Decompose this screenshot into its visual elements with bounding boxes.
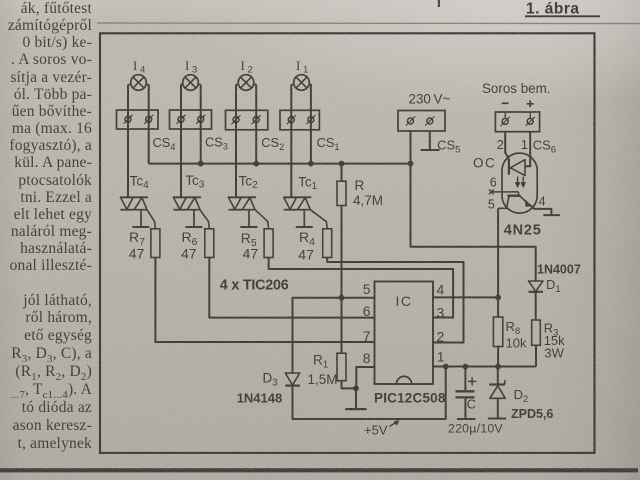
label R7	[129, 229, 145, 248]
wire lamp I2 right lead to 230V bus	[255, 85, 257, 164]
ground symbol	[345, 388, 366, 409]
lamp I4	[128, 75, 148, 91]
wire IC pin 4 to opto collector node	[433, 296, 498, 298]
resistor R8 body	[493, 317, 502, 347]
resistor R3 body	[532, 320, 541, 345]
wire pin4 node to R8	[497, 297, 499, 317]
wire opto collector to pin4 node	[497, 208, 499, 297]
label R3	[544, 321, 559, 339]
wire 230V common bus	[149, 163, 411, 165]
label D2	[514, 387, 529, 405]
pin number 4	[437, 282, 445, 298]
junction +5V line riser	[443, 364, 449, 370]
opto LED cathode wire from CS6 pin 2	[505, 132, 509, 159]
label 6 opto base pin	[490, 176, 497, 190]
label OC	[473, 156, 496, 171]
opto phototransistor	[498, 196, 531, 209]
resistor R5 47 ohm body	[264, 229, 273, 258]
wire R 4,7M to pin5 node	[341, 206, 343, 298]
label 1N4148	[237, 391, 283, 406]
junction pin4/opto/R8	[495, 295, 501, 301]
label 1N4007	[537, 263, 581, 277]
label CS6	[533, 138, 556, 156]
label 4,7M	[353, 193, 383, 208]
label CS1	[317, 135, 340, 152]
resistor R7 47 ohm body	[151, 229, 160, 258]
label 4 opto emitter pin	[539, 195, 546, 209]
junction on bus at I3 lead	[198, 161, 204, 167]
label 2 CS6 pin	[497, 137, 504, 152]
label Tc4	[130, 174, 150, 192]
wire lamp I3 right lead to 230V bus	[200, 85, 202, 164]
label D1	[546, 277, 561, 295]
capacitor C body	[456, 367, 476, 420]
junction on bus at I1 lead	[308, 161, 314, 167]
junction R1/pin8/ground	[353, 386, 359, 392]
resistor R4 47 ohm body	[323, 229, 332, 258]
label R4	[299, 229, 315, 248]
opto LED	[509, 159, 525, 176]
label 15k	[544, 333, 565, 348]
label R6	[182, 229, 198, 248]
label minus	[502, 102, 509, 104]
label R8	[506, 319, 521, 337]
label R1	[313, 353, 329, 371]
wire lamp I4 right lead to 230V bus	[148, 85, 150, 164]
bottom page rule	[0, 468, 638, 472]
pin number 7	[363, 328, 371, 344]
label 47 of R6	[181, 246, 197, 262]
zener diode D2 ZPD5,6	[488, 367, 507, 419]
label 47 of R4	[298, 247, 314, 263]
label I1	[296, 58, 308, 76]
optocoupler 4N25 body outline	[502, 153, 537, 213]
label I4	[133, 58, 145, 76]
opto base lead with x mark	[489, 190, 519, 196]
triac Tc2	[228, 197, 269, 229]
label 5 opto collector pin	[488, 197, 495, 211]
wire bus to R 4,7M	[341, 164, 343, 182]
wire R1 bottom to ground node	[342, 381, 357, 389]
label CS2	[261, 135, 284, 152]
label 47 of R5	[243, 246, 259, 262]
pin number 5	[363, 281, 371, 297]
label Tc3	[185, 173, 205, 191]
label 4N25	[504, 223, 542, 239]
IC PIC12C508 body	[375, 282, 434, 385]
label 4 x TIC206	[220, 277, 289, 293]
terminal block CS4	[117, 110, 159, 129]
wire R8 to +5V rail	[497, 347, 499, 367]
label +5V with arrow	[364, 421, 399, 438]
wire lamp I3 left lead to triac Tc3	[180, 85, 182, 198]
top rule above figure	[97, 22, 640, 25]
label 1,5M	[308, 372, 338, 387]
label 230 V~	[409, 91, 451, 106]
label Tc1	[298, 175, 318, 193]
label PIC12C508	[374, 391, 446, 406]
junction C top	[463, 364, 469, 370]
terminal block CS2	[226, 110, 268, 130]
lamp I3	[180, 75, 200, 91]
wire D1 to R3	[535, 292, 537, 320]
wire D3 to +5V line	[293, 367, 446, 420]
label D3	[263, 371, 279, 389]
wire R7 to IC pin 7	[155, 258, 374, 343]
label I2	[241, 58, 253, 76]
wire opto emitter open end	[530, 205, 561, 215]
wire R5 to IC pin 3	[269, 258, 454, 318]
label Soros bem.	[482, 81, 550, 96]
opto LED anode wire from CS6 pin 1	[525, 132, 530, 167]
opto light arrows	[516, 177, 526, 188]
lamp I1	[291, 75, 311, 91]
terminal block CS6	[495, 112, 539, 132]
resistor R1 1,5M body	[337, 353, 346, 381]
wire R3 to +5V rail	[535, 345, 537, 366]
wire lamp I1 left lead to triac Tc1	[290, 85, 292, 198]
label IC	[396, 293, 413, 309]
wire lamp I2 left lead to triac Tc2	[235, 85, 237, 198]
wire IC pin 8 to ground node	[356, 367, 374, 388]
pin number 3	[437, 305, 445, 321]
junction R8/D2	[495, 364, 501, 370]
label R	[355, 178, 365, 193]
wire R6 to IC pin 6	[209, 258, 374, 318]
capacitor C 220u plus sign	[468, 377, 476, 385]
label Tc2	[239, 174, 259, 192]
terminal block CS5	[398, 111, 445, 132]
stray column-rule tick at top edge	[438, 0, 440, 7]
pin number 8	[363, 350, 371, 366]
wire R4 to IC pin 2	[327, 257, 463, 343]
junction on bus at R 4,7M	[339, 161, 345, 167]
diode D1 1N4007	[529, 281, 544, 292]
wire lamp I1 right lead to 230V bus	[310, 85, 312, 164]
terminal block CS1	[280, 110, 319, 130]
wire IC pin 5 line	[293, 298, 375, 373]
wire pin5 node to R1	[341, 298, 343, 354]
junction on bus at CS5	[408, 161, 414, 167]
label 47 of R7	[129, 246, 145, 262]
label plus	[527, 100, 534, 107]
resistor R6 47 ohm body	[205, 229, 214, 258]
lamp I2	[236, 75, 256, 91]
wire 230V live down to D1	[411, 164, 536, 281]
wire lamp I4 left lead to triac Tc4	[127, 85, 129, 198]
label ZPD5,6	[511, 407, 553, 421]
junction on bus at I2 lead	[253, 161, 259, 167]
label 3W	[544, 345, 564, 360]
junction pin5 node R/R1	[339, 295, 345, 301]
wire CS5 left terminal to bus	[410, 131, 412, 164]
triac Tc4	[120, 197, 155, 229]
label 220u/10V	[448, 421, 503, 435]
label CS5	[437, 138, 460, 156]
wire CS5 right terminal open end	[421, 131, 440, 150]
wire +5V rail from IC pin 1	[433, 366, 536, 368]
diode D3 1N4148	[285, 373, 300, 386]
schematic border frame	[100, 33, 595, 453]
label C	[467, 396, 476, 411]
label R5	[241, 230, 257, 249]
triac Tc1	[283, 197, 327, 229]
label CS3	[205, 134, 228, 151]
resistor R 4,7M body	[337, 181, 346, 205]
pin number 1	[437, 349, 445, 365]
label CS4	[153, 135, 176, 152]
label 10k	[506, 336, 527, 351]
pin number 6	[363, 303, 371, 319]
pin number 2	[437, 329, 445, 345]
label 1 CS6 pin	[521, 137, 528, 152]
triac Tc3	[173, 197, 209, 229]
terminal block CS3	[170, 110, 212, 129]
label I3	[185, 58, 197, 76]
figure caption 1. abra	[525, 1, 600, 18]
